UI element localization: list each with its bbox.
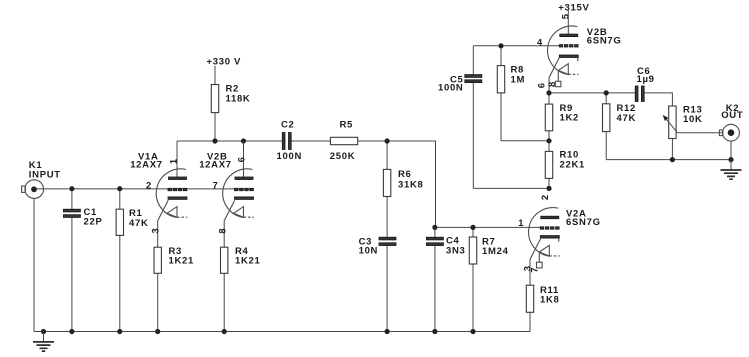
triode V2A 6SN7G cathode (530, 236, 560, 260)
svg-text:10N: 10N (359, 246, 379, 257)
triode V2B 6SN7G envelope (548, 26, 578, 75)
wire R2 to plate bus (214, 113, 216, 141)
op... triode V1A envelope (156, 169, 186, 218)
wire +330V to R2 (214, 66, 216, 85)
wire C5 leads (472, 46, 474, 189)
triode V2A 6SN7G plate (541, 216, 559, 219)
capacitor C4 (426, 237, 443, 245)
svg-text:1: 1 (168, 159, 179, 164)
triode V2B 12AX7 cathode (224, 197, 254, 221)
capacitor C1 (63, 209, 80, 217)
node V2A plate R10 (546, 186, 551, 191)
svg-text:R6: R6 (398, 169, 412, 180)
resistor R9 (545, 104, 552, 131)
node R9 R10 R8 (546, 138, 551, 143)
node ground bus R4 (222, 329, 227, 334)
svg-text:100N: 100N (438, 83, 464, 94)
wire R8 to R9 R10 node (501, 140, 549, 142)
svg-text:C2: C2 (281, 120, 295, 131)
triode V2A 6SN7G grid (540, 227, 559, 229)
node ground bus R7 (470, 329, 475, 334)
node V2A grid bus C4 (432, 225, 437, 230)
node V2B cathode R9 (546, 90, 551, 95)
resistor R2 (211, 85, 218, 113)
wire R13 wiper to K2 (678, 132, 723, 134)
wire C5 bottom to plate V2A (473, 187, 549, 189)
capacitor C2 (282, 133, 291, 150)
wire R12 leads (605, 93, 607, 160)
svg-text:100N: 100N (277, 151, 303, 162)
node K2 ground (728, 157, 733, 162)
svg-text:R5: R5 (340, 120, 354, 131)
svg-text:6: 6 (235, 157, 246, 162)
wire input grid bus (34, 188, 254, 190)
svg-text:10K: 10K (683, 114, 703, 125)
wire V2A cathode to R11 (529, 259, 531, 285)
capacitor C5 (465, 75, 482, 83)
node grid bus C1 (69, 186, 74, 191)
ground GND2 K2 (721, 160, 742, 180)
wire plate bus V1A/V2B to C2 (177, 140, 282, 142)
svg-text:1K8: 1K8 (540, 295, 560, 306)
wire K1 to ground bus (33, 198, 35, 331)
node plate bus R6 (385, 138, 390, 143)
node ground bus GND1 (41, 329, 46, 334)
svg-text:1M24: 1M24 (482, 246, 509, 257)
wire R8 leads (500, 46, 502, 141)
svg-text:2: 2 (146, 179, 151, 190)
wire R11 to ground bus (529, 312, 531, 331)
svg-text:250K: 250K (330, 151, 356, 162)
wire R3 leads (157, 221, 159, 332)
svg-text:1K2: 1K2 (560, 113, 580, 124)
node R12 top (604, 90, 609, 95)
wire C2 to R5 (291, 140, 330, 142)
pin 8 V2B 6SN7 nc (546, 71, 561, 87)
ground GND1 (33, 332, 54, 352)
wire R1 leads (119, 189, 121, 332)
triode V1A grid (168, 188, 187, 190)
node V2A grid bus R7 (470, 225, 475, 230)
resistor R11 (526, 285, 533, 312)
svg-text:8: 8 (216, 228, 227, 233)
triode V2A 6SN7G envelope (529, 208, 559, 257)
wire C4 leads (434, 227, 436, 331)
svg-text:47K: 47K (617, 113, 637, 124)
svg-text:22K1: 22K1 (560, 159, 586, 170)
triode V2B 12AX7 plate (235, 141, 253, 180)
wire C1 leads (71, 189, 73, 332)
resistor R1 (116, 209, 123, 235)
svg-text:1K21: 1K21 (235, 256, 261, 267)
node top grid bus R8 (498, 43, 503, 48)
svg-text:+315V: +315V (558, 2, 589, 13)
resistor R10 (545, 151, 552, 178)
node grid bus R1 (117, 186, 122, 191)
svg-text:6SN7G: 6SN7G (587, 36, 622, 47)
wire node R6 to V2A grid bus (387, 141, 540, 227)
wire C3 to ground bus (386, 246, 388, 332)
triode V2B 12AX7 grid (235, 188, 254, 190)
svg-text:1K21: 1K21 (169, 256, 195, 267)
capacitor C6 (635, 86, 644, 102)
wire K2 to ground (730, 141, 732, 160)
svg-text:12AX7: 12AX7 (199, 159, 232, 170)
node plate bus V2B (241, 138, 246, 143)
triode V2B 6SN7G grid (559, 45, 578, 47)
wire R7 leads (472, 227, 474, 331)
resistor R7 (469, 237, 476, 264)
svg-text:INPUT: INPUT (29, 169, 61, 180)
wire cathode node to C6 (549, 92, 635, 94)
node ground bus R1 (117, 329, 122, 334)
resistor R8 (497, 66, 504, 93)
svg-text:1M: 1M (511, 74, 526, 85)
svg-text:5: 5 (559, 14, 570, 19)
svg-text:12AX7: 12AX7 (130, 159, 163, 170)
wire R6 leads (386, 141, 388, 237)
svg-text:1µ9: 1µ9 (637, 74, 655, 85)
potentiometer R13 wiper arrow (663, 115, 678, 133)
wire R10 leads (548, 141, 550, 189)
svg-text:31K8: 31K8 (398, 180, 424, 191)
node R13 bottom (670, 157, 675, 162)
connector K1 (22, 180, 44, 199)
triode V2B 12AX7 envelope (223, 169, 253, 218)
wire R13 bottom lead (671, 139, 673, 160)
triode V1A cathode (158, 197, 188, 221)
node ground bus C1 (69, 329, 74, 334)
pin 7 V2A nc (528, 252, 542, 272)
wire bottom right ground wire (606, 159, 731, 161)
triode V1A plate (169, 141, 187, 180)
svg-text:2: 2 (539, 195, 550, 200)
svg-text:47K: 47K (129, 218, 149, 229)
potentiometer R13 (669, 106, 676, 139)
resistor R12 (603, 104, 610, 132)
wire bottom ground bus (34, 331, 530, 333)
node plate bus R2 (212, 138, 217, 143)
svg-text:OUT: OUT (721, 110, 743, 121)
svg-text:+330 V: +330 V (207, 57, 242, 68)
svg-text:22P: 22P (84, 217, 103, 228)
svg-text:118K: 118K (226, 93, 251, 104)
wire +315V lead (567, 11, 569, 35)
triode V2B 6SN7G cathode (549, 55, 579, 78)
capacitor C3 (379, 237, 396, 245)
wire V2B cathode lead (548, 78, 550, 93)
svg-text:4: 4 (537, 36, 543, 47)
wire R4 leads (223, 221, 225, 332)
svg-text:3N3: 3N3 (446, 245, 466, 256)
node ground bus R3 (155, 329, 160, 334)
connector K2 (719, 124, 739, 141)
svg-text:1: 1 (518, 217, 523, 228)
resistor R5 (330, 137, 357, 144)
wire C6 to R13 (644, 93, 672, 106)
triode V2B 6SN7G plate (560, 34, 578, 37)
svg-text:7: 7 (213, 179, 218, 190)
node ground bus C4 (432, 329, 437, 334)
svg-text:6SN7G: 6SN7G (566, 217, 601, 228)
resistor R6 (383, 169, 390, 196)
resistor R4 (221, 247, 228, 273)
wire R9 leads (548, 93, 550, 141)
wire R5 to node R6 (358, 140, 387, 142)
svg-text:3: 3 (150, 228, 161, 233)
resistor R3 (154, 247, 161, 273)
wire top grid bus 6SN7 (473, 45, 559, 47)
node ground bus C3 (385, 329, 390, 334)
